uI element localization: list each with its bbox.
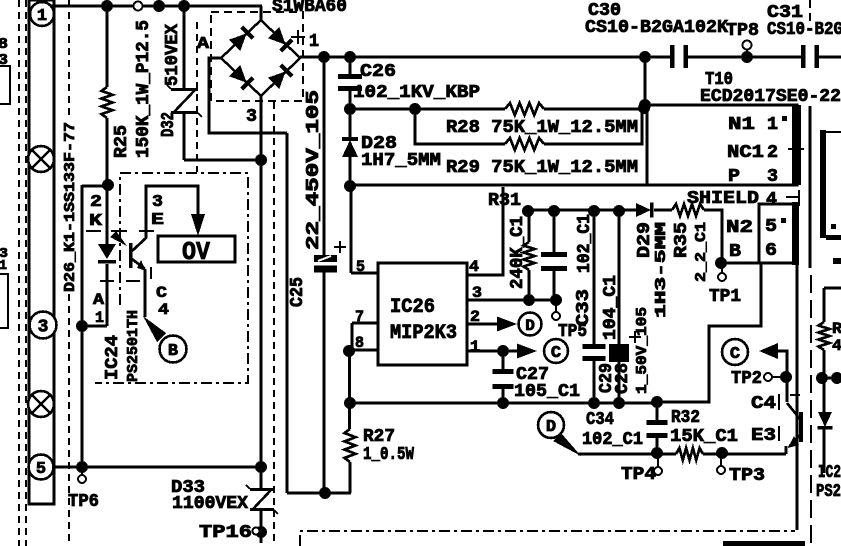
svg-text:SHIELD: SHIELD xyxy=(687,189,759,209)
svg-text:IC2: IC2 xyxy=(818,463,841,483)
svg-text:R27: R27 xyxy=(363,427,395,447)
svg-text:1100VEX: 1100VEX xyxy=(172,494,248,514)
svg-text:OV: OV xyxy=(182,237,210,267)
svg-text:C34: C34 xyxy=(586,410,614,430)
svg-text:4: 4 xyxy=(766,190,777,210)
svg-text:N1: N1 xyxy=(728,115,755,135)
svg-text:CS10-B2G: CS10-B2G xyxy=(767,20,841,40)
svg-text:15K_C1: 15K_C1 xyxy=(670,427,738,447)
svg-text:102_C1: 102_C1 xyxy=(575,214,595,273)
svg-text:1: 1 xyxy=(470,338,480,356)
svg-text:C: C xyxy=(551,344,561,363)
svg-text:TP8: TP8 xyxy=(726,21,759,41)
svg-text:6: 6 xyxy=(765,241,777,261)
svg-text:1: 1 xyxy=(37,7,47,26)
svg-text:P: P xyxy=(728,167,740,187)
svg-text:E: E xyxy=(151,211,164,230)
svg-text:CS10-B2GA102K: CS10-B2GA102K xyxy=(585,18,728,38)
svg-text:240K_C1: 240K_C1 xyxy=(508,216,528,289)
svg-text:4: 4 xyxy=(832,337,841,355)
svg-text:TP16: TP16 xyxy=(199,523,252,543)
svg-text:TP6: TP6 xyxy=(68,492,99,512)
svg-text:8: 8 xyxy=(0,36,8,53)
svg-text:C: C xyxy=(156,284,167,302)
svg-text:NC1: NC1 xyxy=(727,143,764,163)
svg-text:B: B xyxy=(729,242,741,262)
svg-text:5: 5 xyxy=(765,217,777,237)
svg-text:3: 3 xyxy=(767,167,778,187)
svg-text:1H3-5MM: 1H3-5MM xyxy=(653,222,670,318)
svg-text:R29 75K_1W_12.5MM: R29 75K_1W_12.5MM xyxy=(446,158,638,178)
svg-text:105_C1: 105_C1 xyxy=(514,382,580,402)
svg-text:B: B xyxy=(168,342,178,361)
svg-text:1: 1 xyxy=(309,32,319,52)
svg-text:C: C xyxy=(730,345,740,364)
svg-text:3: 3 xyxy=(38,318,49,338)
svg-text:5: 5 xyxy=(36,460,46,479)
svg-text:C25: C25 xyxy=(288,277,308,307)
svg-text:2: 2 xyxy=(767,143,778,163)
svg-text:D26_K1-1SS133F-77: D26_K1-1SS133F-77 xyxy=(62,122,79,292)
svg-text:C33: C33 xyxy=(574,289,594,326)
svg-text:A: A xyxy=(197,35,210,54)
svg-text:PS2: PS2 xyxy=(816,482,841,502)
svg-text:4: 4 xyxy=(158,301,169,319)
svg-text:PS2501TH: PS2501TH xyxy=(125,310,142,382)
svg-text:TP3: TP3 xyxy=(729,466,765,486)
svg-text:TP2: TP2 xyxy=(731,369,762,389)
svg-text:TP4: TP4 xyxy=(621,465,656,485)
svg-text:3: 3 xyxy=(246,107,257,127)
svg-text:2: 2 xyxy=(90,193,102,212)
svg-text:1: 1 xyxy=(767,115,778,135)
svg-text:TP1: TP1 xyxy=(709,287,741,307)
svg-text:1: 1 xyxy=(95,309,104,327)
svg-text:R28 75K_1W_12.5MM: R28 75K_1W_12.5MM xyxy=(446,118,638,138)
svg-text:150K_1W_P12.5: 150K_1W_P12.5 xyxy=(134,20,154,158)
svg-text:1: 1 xyxy=(0,258,7,274)
svg-text:R25: R25 xyxy=(112,125,132,158)
svg-text:A: A xyxy=(93,291,104,309)
svg-text:R31: R31 xyxy=(488,191,521,211)
svg-text:1_0.5W: 1_0.5W xyxy=(363,445,414,465)
svg-text:IC24: IC24 xyxy=(103,335,123,380)
svg-text:510VEX: 510VEX xyxy=(163,24,183,86)
svg-text:102_C1: 102_C1 xyxy=(582,430,643,450)
svg-text:D: D xyxy=(546,418,556,437)
svg-text:C28: C28 xyxy=(613,363,633,394)
svg-text:D32: D32 xyxy=(159,112,179,137)
svg-text:E3: E3 xyxy=(751,426,776,446)
svg-text:MIP2K3: MIP2K3 xyxy=(390,322,457,345)
svg-text:1_50V_105: 1_50V_105 xyxy=(634,307,651,394)
svg-text:IC26: IC26 xyxy=(390,296,435,319)
svg-text:1H7_5MM: 1H7_5MM xyxy=(361,151,441,171)
svg-text:K: K xyxy=(89,212,103,231)
svg-text:2_2_C1: 2_2_C1 xyxy=(693,222,710,282)
svg-text:D29: D29 xyxy=(635,222,655,258)
svg-text:D: D xyxy=(525,317,535,335)
svg-text:R32: R32 xyxy=(671,408,700,428)
svg-text:104_C1: 104_C1 xyxy=(601,275,621,340)
svg-text:C4: C4 xyxy=(751,394,776,414)
svg-text:S1WBA60: S1WBA60 xyxy=(272,0,347,17)
svg-text:102_1KV_KBP: 102_1KV_KBP xyxy=(353,83,480,103)
svg-text:22_450V_105: 22_450V_105 xyxy=(304,90,324,250)
svg-text:3: 3 xyxy=(152,193,163,212)
svg-text:C26: C26 xyxy=(360,62,396,82)
svg-text:4: 4 xyxy=(469,258,479,276)
svg-text:R35: R35 xyxy=(672,222,692,258)
svg-text:ECD2017SE0-22: ECD2017SE0-22 xyxy=(700,87,841,107)
svg-text:N2: N2 xyxy=(726,218,753,238)
